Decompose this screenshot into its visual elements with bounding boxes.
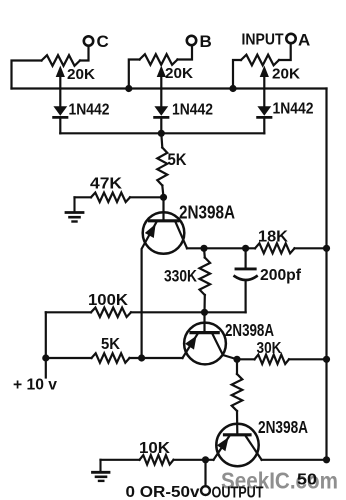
potentiometer R2 20K body (140, 54, 178, 65)
wire 100K to Q2 base node (131, 311, 205, 313)
wire diode D2 cathode to bus2 (160, 117, 162, 133)
wire pot2 right end to terminal B (178, 45, 193, 59)
junction pot3-left on top bus (229, 85, 236, 92)
diode D3 1N442 (257, 106, 271, 116)
junction 18K right rail (323, 245, 330, 252)
svg-text:C: C (97, 32, 109, 51)
wiper arrow of pot3 (260, 66, 269, 78)
wire +10v stub (45, 358, 47, 378)
wire +10v node to 5K (46, 357, 92, 359)
junction cathode bus to 5K (158, 130, 165, 137)
wire cap top lead (245, 248, 247, 267)
wire 30K to right rail (289, 358, 327, 360)
junction right rail bottom (323, 456, 330, 463)
resistor 10K body (140, 455, 174, 464)
wire pot2 left end to bus (129, 60, 140, 89)
svg-text:B: B (200, 32, 212, 51)
wire Q1 base lead (162, 197, 164, 219)
terminal A (286, 34, 295, 43)
transistor Q3 base bar (225, 433, 251, 436)
potentiometer R3 20K body (241, 55, 279, 66)
terminal C (84, 36, 93, 45)
resistor 330K body (200, 258, 211, 296)
transistor Q3 2N398A circle (216, 424, 258, 466)
svg-text:47K: 47K (90, 176, 122, 193)
svg-text:0 OR-50v: 0 OR-50v (126, 484, 200, 500)
ground symbol (10K) (99, 460, 101, 472)
capacitor C1 200pf curved plate (235, 276, 257, 280)
resistor 100K body (91, 308, 131, 317)
svg-text:+ 10 v: + 10 v (13, 377, 57, 394)
wire pot1 left end to bus (12, 61, 42, 89)
wire Q2 collector to 30K (237, 358, 255, 360)
wiper arrow of pot2 (157, 66, 166, 78)
junction Q2 collector node (233, 356, 240, 363)
resistor 5K vertical body (157, 148, 167, 186)
junction 30K right rail (323, 356, 330, 363)
svg-text:5K: 5K (101, 336, 120, 353)
wire pot3 right end to terminal A (279, 43, 291, 60)
transistor Q1 2N398A circle (143, 212, 185, 254)
transistor Q1 emitter with arrow (142, 222, 157, 358)
wire ground to 47K (75, 196, 92, 198)
junction output node (202, 456, 209, 463)
svg-text:330K: 330K (164, 267, 198, 286)
svg-text:1N442: 1N442 (69, 102, 110, 119)
resistor 30K body (255, 355, 290, 364)
svg-text:A: A (298, 31, 310, 50)
svg-text:2N398A: 2N398A (179, 203, 235, 223)
resistor 5K horizontal body (92, 353, 130, 362)
wire diode cathode bus (60, 132, 264, 134)
output terminal circle (201, 486, 210, 495)
wire wiper3 to diode D3 (263, 75, 265, 106)
transistor Q1 base bar (150, 219, 179, 222)
transistor Q1 collector (176, 222, 188, 248)
wire Q2 base lead (203, 312, 205, 331)
svg-text:5K: 5K (168, 150, 188, 169)
wire pot1 right end to terminal C (80, 46, 89, 60)
wire 18K to right rail (295, 247, 327, 249)
wire output node down (204, 460, 206, 486)
resistor 47K body (91, 193, 130, 202)
wire +10v branch to 100K (46, 311, 91, 313)
transistor Q3 collector (246, 436, 262, 460)
svg-text:1N442: 1N442 (273, 101, 314, 118)
wire diode D1 cathode to bus2 (59, 117, 61, 133)
junction cap top (242, 245, 249, 252)
wire bus2 to 5K top (161, 133, 162, 147)
svg-text:2N398A: 2N398A (258, 417, 308, 437)
svg-text:1N442: 1N442 (172, 102, 213, 119)
svg-text:20K: 20K (67, 66, 95, 83)
wire 330K bottom lead (203, 295, 206, 312)
wire pot3 left end to bus (233, 60, 241, 89)
wire Q2 base node to cap bottom (205, 311, 246, 313)
wire cap bottom lead (245, 280, 247, 312)
wire resistor R to Q3 base (236, 411, 239, 434)
junction pot2-left on top bus (125, 85, 132, 92)
terminal B (187, 36, 196, 45)
junction Q1 base node (160, 194, 167, 201)
wire wiper1 to diode D1 (59, 75, 61, 106)
wire Q2 node to resistor R (236, 359, 238, 374)
junction Q1 emitter on 5K line (138, 354, 145, 361)
svg-text:20K: 20K (272, 66, 300, 83)
wire right rail (325, 89, 327, 460)
svg-text:SeekIC.com: SeekIC.com (221, 468, 338, 494)
svg-text:20K: 20K (165, 65, 193, 82)
junction +10v node (42, 354, 49, 361)
transistor Q2 emitter with arrow (183, 334, 198, 358)
diode D2 1N442 (154, 106, 168, 116)
svg-text:18K: 18K (258, 229, 288, 246)
ground symbol (47K) (73, 197, 75, 212)
resistor R (unlabeled) body (232, 374, 243, 411)
wire wiper2 to diode D2 (160, 75, 162, 106)
svg-text:INPUT: INPUT (242, 32, 284, 49)
wire top bus (12, 87, 327, 89)
svg-text:50: 50 (297, 472, 317, 489)
wire Q1 collector to 18K (187, 247, 255, 249)
wire 5K to Q2 emitter (130, 357, 183, 359)
svg-text:30K: 30K (257, 340, 283, 357)
transistor Q2 base bar (191, 331, 218, 334)
wire 100K corner down to 5K line (45, 312, 47, 358)
junction 330K top (200, 245, 207, 252)
wiper arrow of pot1 (56, 66, 65, 78)
resistor 18K body (255, 243, 295, 253)
junction Q2 base node (201, 309, 208, 316)
svg-text:2N398A: 2N398A (225, 320, 274, 340)
wire 5K bottom to node (162, 186, 163, 198)
transistor Q2 2N398A circle (184, 323, 226, 365)
wire 10K to Q3 emitter (174, 459, 214, 461)
wire ground to 10K (101, 459, 140, 461)
svg-text:200pf: 200pf (260, 267, 302, 284)
potentiometer R1 20K body (42, 55, 81, 66)
wire 330K top lead (203, 248, 206, 257)
wire diode D3 cathode to bus2 (263, 117, 265, 133)
transistor Q3 emitter with arrow (214, 436, 230, 460)
capacitor C1 200pf top plate (236, 267, 255, 270)
diode D1 1N442 (53, 106, 67, 116)
wire 47K to Q1 base node (130, 196, 164, 198)
wire Q3 collector to right rail (262, 459, 327, 461)
transistor Q2 collector (213, 334, 238, 359)
